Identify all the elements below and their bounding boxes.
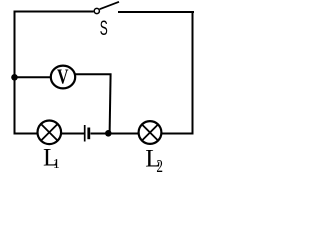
wire left vertical <box>14 11 16 135</box>
lamp L1 <box>38 121 62 145</box>
wire top left segment <box>14 11 94 13</box>
voltmeter U V <box>51 65 75 89</box>
node junction dot bottom <box>105 130 112 137</box>
wire voltmeter right <box>75 73 112 75</box>
wire right vertical <box>192 11 194 135</box>
svg-text:1: 1 <box>53 157 60 172</box>
wire bottom right segment <box>162 133 194 135</box>
wire voltmeter left <box>14 76 51 78</box>
wire bottom between junction and L2 <box>108 133 139 135</box>
battery cell <box>85 125 89 142</box>
wire bottom left segment <box>14 133 39 135</box>
wire battery to junction <box>91 133 110 135</box>
svg-text:V: V <box>57 65 69 89</box>
lamp L2 <box>139 121 162 144</box>
wire top right segment <box>118 11 194 13</box>
wire voltmeter branch vertical <box>110 74 111 135</box>
svg-text:2: 2 <box>156 156 163 175</box>
wire L1 to battery <box>61 133 84 135</box>
switch S <box>94 2 119 14</box>
node junction dot left <box>11 74 18 81</box>
svg-text:S: S <box>100 16 108 40</box>
